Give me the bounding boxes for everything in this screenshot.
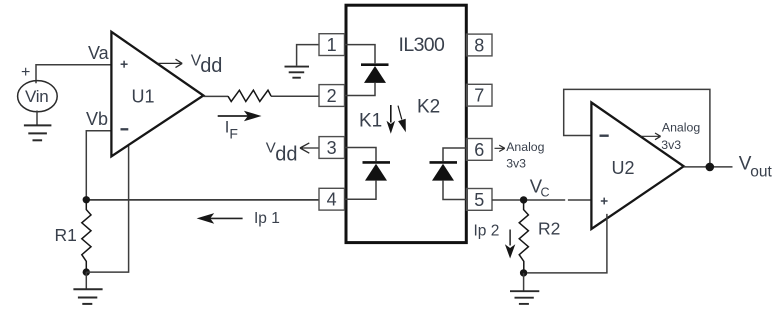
svg-text:4: 4: [327, 190, 337, 210]
wire photodiode 1 to pin 4: [345, 181, 377, 200]
coupling arrow K1: [387, 105, 396, 134]
svg-text:8: 8: [474, 36, 484, 56]
svg-text:1: 1: [327, 35, 337, 55]
wire photodiode 2 to pin 5: [443, 181, 467, 200]
IF label: [225, 119, 238, 142]
wire pin 6 to photodiode 2: [443, 148, 467, 161]
wire R2 bottom to ground: [523, 273, 525, 291]
photodiode K1 (pins 3-4): [363, 162, 391, 180]
svg-text:7: 7: [474, 86, 484, 106]
svg-text:3v3: 3v3: [661, 138, 681, 152]
wire pin 1 to LED cathode: [345, 45, 376, 64]
arrow to Analog 3v3 (U2 supply): [640, 133, 661, 140]
svg-text:Analog: Analog: [506, 140, 544, 154]
svg-text:Analog: Analog: [662, 121, 700, 135]
svg-text:F: F: [229, 125, 238, 141]
svg-text:Vb: Vb: [86, 109, 108, 129]
wire Vin top to Va line: [36, 65, 111, 84]
current arrow Ip 2: [505, 230, 515, 259]
op-amp U1: [111, 32, 203, 157]
op-amp U2: [591, 103, 683, 230]
junction dot U2 output: [706, 163, 715, 172]
junction dot Vb/R1: [83, 196, 90, 203]
wire R1 bottom to ground: [85, 272, 87, 289]
current arrow Ip 1: [197, 213, 243, 224]
pin 3 box: [319, 137, 345, 159]
Vout label: [739, 154, 773, 181]
svg-text:K2: K2: [417, 97, 440, 118]
svg-text:2: 2: [327, 86, 337, 106]
svg-text:out: out: [750, 163, 772, 180]
resistor (LED series): [228, 90, 271, 101]
junction dot R2 bottom: [520, 269, 527, 276]
wire U1 output to resistor: [203, 95, 228, 97]
U1 non-inverting input +: [121, 61, 128, 68]
U2 non-inverting input +: [601, 198, 608, 205]
svg-text:6: 6: [474, 140, 484, 160]
wire pin 5 to U2 non-inverting input: [492, 199, 591, 201]
svg-text:U1: U1: [132, 87, 155, 107]
wire ground node to U2 positive rail: [527, 214, 607, 273]
arrow to Vdd (U1 supply): [158, 59, 183, 67]
wire Vin bottom to ground: [36, 111, 38, 126]
wire pin 3 to photodiode 1: [345, 148, 377, 162]
wire resistor to pin 2: [271, 95, 319, 97]
arrow pin 3 to Vdd: [300, 143, 319, 153]
svg-text:U2: U2: [612, 158, 635, 178]
Vdd label (pin 3): [266, 140, 298, 166]
svg-text:Ip 2: Ip 2: [474, 222, 500, 239]
junction dot VC: [520, 196, 527, 203]
svg-text:Va: Va: [88, 43, 110, 63]
ground (pin 1): [285, 67, 310, 78]
svg-text:R2: R2: [538, 218, 560, 238]
pin 4 box: [319, 188, 345, 210]
svg-text:C: C: [541, 186, 550, 200]
photodiode K2 (pins 6-5): [430, 162, 458, 180]
Vdd label (U1 supply): [191, 53, 223, 77]
svg-text:IL300: IL300: [399, 34, 446, 56]
ground (below Vin): [24, 125, 52, 140]
svg-text:+: +: [21, 64, 30, 81]
arrow pin 6 to Analog 3v3: [495, 145, 505, 151]
pin 8 box: [467, 34, 493, 56]
node VC label: [530, 175, 550, 199]
svg-text:5: 5: [474, 190, 484, 210]
pin 7 box: [467, 84, 493, 106]
resistor R2: [519, 200, 528, 273]
svg-text:3v3: 3v3: [506, 156, 526, 170]
svg-text:3: 3: [327, 138, 337, 158]
wire U2 output to Vout: [684, 166, 733, 168]
junction dot R1 bottom: [83, 268, 90, 275]
svg-text:dd: dd: [200, 55, 222, 77]
wire Vb node to pin 4: [86, 199, 319, 201]
pin 1 box: [319, 34, 345, 56]
svg-text:Vin: Vin: [25, 87, 48, 106]
current arrow IF: [218, 111, 262, 122]
Analog 3v3 label (U2 supply): [661, 121, 700, 153]
resistor R1: [82, 200, 91, 272]
wire LED anode to pin 2: [345, 83, 376, 96]
voltage source Vin: [18, 81, 58, 112]
pin 6 box: [467, 139, 493, 161]
svg-text:dd: dd: [275, 143, 297, 165]
svg-text:Ip 1: Ip 1: [254, 210, 280, 227]
pin 5 box: [467, 189, 493, 211]
U1 inverting input -: [121, 128, 129, 130]
svg-text:K1: K1: [359, 111, 382, 132]
coupling arrow K2: [398, 106, 406, 133]
ground (below R1): [73, 289, 102, 304]
ground (below R2): [510, 291, 539, 304]
IC IL300 body: [346, 5, 466, 242]
svg-text:R1: R1: [55, 225, 77, 245]
wire Vb to U1 inverting input: [86, 131, 111, 200]
wire U1 bottom to ground node: [86, 146, 128, 272]
pin 2 box: [319, 85, 345, 107]
U2 inverting input -: [600, 134, 609, 136]
LED (pins 1-2): [361, 65, 389, 83]
wire pin 1 to ground: [297, 45, 320, 66]
Analog 3v3 label (pin 6): [506, 140, 544, 171]
feedback wire U2 output to inverting input: [564, 89, 710, 166]
